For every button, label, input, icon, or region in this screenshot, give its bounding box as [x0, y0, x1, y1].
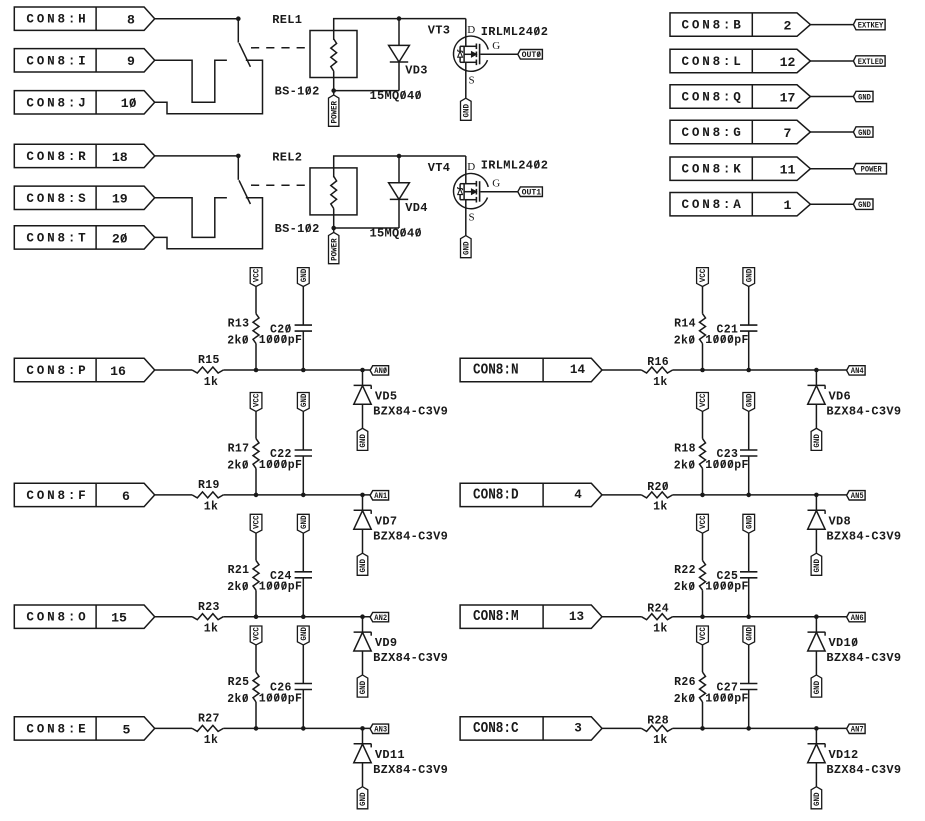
svg-text:VT3: VT3	[428, 24, 451, 38]
junction	[331, 226, 336, 231]
zener diode VD5	[362, 370, 364, 386]
wire	[673, 494, 847, 496]
power flag POWER	[329, 95, 339, 126]
zener diode VD6	[815, 370, 817, 386]
wire	[255, 645, 257, 672]
net flag OUT1	[518, 187, 543, 197]
junction	[397, 154, 402, 159]
svg-text:BS-102: BS-102	[275, 85, 320, 99]
svg-text:R23: R23	[198, 601, 220, 614]
analog input channel AN3 (left)	[14, 626, 448, 809]
wire	[333, 91, 335, 95]
wire	[810, 60, 853, 62]
relay channel 1 (REL1)	[14, 7, 548, 126]
svg-text:7: 7	[784, 126, 792, 141]
wire	[237, 19, 239, 43]
svg-text:CON8:A: CON8:A	[682, 198, 744, 212]
junction	[700, 726, 705, 731]
connector pin CON8:S	[14, 186, 154, 209]
junction	[254, 726, 259, 731]
svg-text:3: 3	[574, 722, 582, 736]
net flag EXTKEY	[853, 19, 885, 29]
wire	[302, 578, 304, 617]
svg-text:VT4: VT4	[428, 161, 451, 175]
ground flag GND	[811, 675, 822, 697]
resistor R18	[700, 439, 706, 469]
svg-text:EXTLED: EXTLED	[858, 58, 884, 67]
zener diode VD10	[815, 617, 817, 633]
ground flag GND	[357, 553, 368, 575]
svg-text:GND: GND	[359, 681, 368, 695]
svg-text:R14: R14	[674, 318, 696, 331]
capacitor C21	[740, 324, 757, 326]
wire	[334, 156, 466, 168]
net flag AN6	[847, 612, 866, 621]
wire	[810, 203, 853, 205]
wire	[255, 344, 257, 371]
power flag VCC	[697, 626, 709, 645]
capacitor C27	[740, 683, 757, 685]
wire	[748, 287, 750, 326]
svg-text:VD8: VD8	[829, 514, 852, 528]
connector pin CON8:K	[670, 157, 810, 180]
wire	[302, 287, 304, 326]
svg-text:1000pF: 1000pF	[705, 692, 749, 705]
svg-text:R16: R16	[647, 356, 669, 369]
svg-text:R22: R22	[674, 564, 696, 577]
svg-text:1k: 1k	[653, 501, 668, 514]
svg-text:2k0: 2k0	[674, 581, 696, 594]
wire	[748, 533, 750, 572]
svg-text:R13: R13	[228, 318, 250, 331]
wire	[255, 412, 257, 439]
resistor R15	[192, 367, 223, 373]
wire	[602, 369, 641, 371]
wire	[480, 191, 517, 193]
net flag AN3	[370, 724, 389, 733]
svg-text:GND: GND	[359, 434, 368, 448]
svg-text:BZX84-C3V9: BZX84-C3V9	[826, 651, 901, 665]
wire	[155, 369, 192, 371]
connector pin CON8:F	[14, 483, 154, 506]
svg-text:BZX84-C3V9: BZX84-C3V9	[826, 763, 901, 777]
connector pin CON8:M	[460, 605, 602, 628]
svg-text:D: D	[467, 161, 475, 173]
svg-text:VD4: VD4	[405, 201, 428, 215]
ground flag GND	[357, 428, 368, 450]
wire	[748, 645, 750, 684]
wire	[810, 24, 853, 26]
svg-text:16: 16	[110, 364, 126, 379]
svg-text:BZX84-C3V9: BZX84-C3V9	[373, 763, 448, 777]
power flag VCC	[250, 393, 262, 412]
svg-text:1k: 1k	[204, 623, 219, 636]
junction	[301, 614, 306, 619]
svg-text:R17: R17	[228, 442, 250, 455]
relay coil REL2	[310, 168, 357, 215]
svg-text:1000pF: 1000pF	[705, 581, 749, 594]
net flag OUT0	[518, 50, 543, 60]
resistor R14	[700, 314, 706, 344]
svg-text:R19: R19	[198, 479, 220, 492]
svg-text:2k0: 2k0	[674, 693, 696, 706]
net flag AN0	[370, 366, 389, 375]
svg-text:POWER: POWER	[861, 166, 882, 175]
svg-text:VD11: VD11	[375, 748, 405, 762]
capacitor C25	[740, 571, 757, 573]
wire	[333, 228, 335, 232]
net flag GND	[853, 127, 873, 137]
wire	[255, 468, 257, 495]
junction	[360, 614, 365, 619]
net flag AN2	[370, 612, 389, 621]
junction	[746, 368, 751, 373]
wire	[702, 590, 704, 617]
svg-text:GND: GND	[463, 241, 472, 255]
wire	[223, 616, 370, 618]
junction	[254, 614, 259, 619]
connector pin CON8:Q	[670, 85, 810, 108]
connector pin CON8:G	[670, 120, 810, 143]
svg-text:2k0: 2k0	[227, 581, 249, 594]
wire	[702, 645, 704, 672]
switch blade REL2	[239, 180, 250, 204]
power flag VCC	[250, 268, 262, 287]
wire	[155, 18, 239, 20]
wire	[302, 533, 304, 572]
svg-text:BZX84-C3V9: BZX84-C3V9	[826, 405, 901, 419]
power flag VCC	[697, 514, 709, 533]
svg-text:POWER: POWER	[330, 238, 339, 261]
svg-text:VCC: VCC	[699, 269, 708, 283]
wire	[334, 19, 466, 31]
svg-text:R20: R20	[647, 481, 669, 494]
wire	[810, 96, 853, 98]
svg-text:AN3: AN3	[374, 726, 387, 735]
ground flag GND	[461, 236, 472, 258]
wire	[255, 533, 257, 560]
wire	[223, 494, 370, 496]
svg-text:1k: 1k	[204, 501, 219, 514]
junction	[254, 493, 259, 498]
svg-text:GND: GND	[858, 129, 871, 138]
svg-text:VCC: VCC	[253, 269, 262, 283]
svg-text:R18: R18	[674, 442, 696, 455]
ground flag GND	[743, 626, 755, 645]
wire	[602, 494, 641, 496]
ground flag GND	[297, 626, 309, 645]
resistor R27	[192, 725, 223, 731]
net flag AN4	[847, 366, 866, 375]
junction	[301, 493, 306, 498]
power flag VCC	[250, 626, 262, 645]
svg-text:VD12: VD12	[829, 748, 859, 762]
wire	[748, 331, 750, 370]
svg-text:R24: R24	[647, 603, 669, 616]
svg-text:VD9: VD9	[375, 636, 398, 650]
junction	[397, 16, 402, 21]
wire	[748, 578, 750, 617]
svg-text:AN6: AN6	[851, 614, 864, 623]
capacitor C22	[295, 449, 312, 451]
svg-text:VD6: VD6	[829, 390, 852, 404]
connector pin CON8:D	[460, 483, 602, 506]
svg-text:1000pF: 1000pF	[259, 692, 303, 705]
wire	[334, 78, 399, 91]
svg-text:G: G	[492, 177, 500, 189]
svg-text:REL1: REL1	[272, 13, 302, 27]
svg-text:GND: GND	[813, 434, 822, 448]
wire	[748, 690, 750, 729]
junction	[746, 726, 751, 731]
switch blade REL1	[239, 43, 250, 67]
analog input channel AN6 (right)	[460, 514, 901, 697]
svg-text:BS-102: BS-102	[275, 222, 320, 236]
svg-text:CON8:H: CON8:H	[26, 13, 88, 27]
wire	[155, 727, 192, 729]
resistor R22	[700, 560, 706, 590]
resistor R17	[253, 439, 259, 469]
svg-text:BZX84-C3V9: BZX84-C3V9	[373, 405, 448, 419]
svg-text:GND: GND	[300, 393, 309, 407]
mechanical link (dashed)	[251, 184, 310, 186]
svg-text:GND: GND	[745, 515, 754, 529]
svg-text:4: 4	[574, 488, 582, 502]
wire	[748, 412, 750, 451]
wire	[702, 287, 704, 314]
svg-text:2k0: 2k0	[674, 335, 696, 348]
analog input channel AN1 (left)	[14, 393, 448, 576]
svg-text:GND: GND	[745, 269, 754, 283]
wire	[302, 331, 304, 370]
svg-text:GND: GND	[813, 792, 822, 806]
power flag VCC	[697, 393, 709, 412]
junction	[814, 726, 819, 731]
svg-text:1000pF: 1000pF	[705, 459, 749, 472]
ground flag GND	[297, 393, 309, 412]
net flag AN5	[847, 491, 866, 500]
svg-text:EXTKEY: EXTKEY	[858, 21, 884, 30]
connector pin CON8:C	[460, 717, 602, 740]
svg-text:CON8:E: CON8:E	[26, 722, 88, 736]
svg-text:AN7: AN7	[851, 726, 864, 735]
wire	[334, 215, 399, 228]
wire	[155, 616, 192, 618]
svg-text:5: 5	[123, 722, 131, 737]
ground flag GND	[461, 98, 472, 120]
junction	[360, 493, 365, 498]
wire	[302, 690, 304, 729]
svg-text:VD5: VD5	[375, 390, 398, 404]
ground flag GND	[743, 268, 755, 287]
wire	[702, 468, 704, 495]
connector pin CON8:B	[670, 13, 810, 36]
wire	[602, 616, 641, 618]
svg-text:VCC: VCC	[699, 515, 708, 529]
svg-text:CON8:P: CON8:P	[26, 364, 88, 378]
capacitor C24	[295, 571, 312, 573]
svg-text:CON8:N: CON8:N	[473, 361, 519, 378]
svg-text:GND: GND	[300, 269, 309, 283]
analog input channel AN5 (right)	[460, 393, 901, 576]
net flag GND	[853, 199, 873, 209]
junction	[360, 368, 365, 373]
connector pin CON8:H	[14, 7, 154, 30]
svg-text:R27: R27	[198, 713, 220, 726]
svg-text:R15: R15	[198, 354, 220, 367]
net flag AN7	[847, 724, 866, 733]
svg-text:2k0: 2k0	[674, 459, 696, 472]
junction	[700, 368, 705, 373]
mechanical link (dashed)	[251, 47, 310, 49]
junction	[360, 726, 365, 731]
svg-text:19: 19	[112, 192, 128, 207]
connector pin CON8:N	[460, 358, 602, 381]
resistor R20	[641, 492, 672, 498]
relay channel 2 (REL2)	[14, 144, 548, 264]
svg-text:BZX84-C3V9: BZX84-C3V9	[373, 651, 448, 665]
svg-text:CON8:G: CON8:G	[682, 126, 744, 140]
svg-text:VCC: VCC	[699, 393, 708, 407]
svg-text:9: 9	[127, 54, 135, 69]
relay coil REL1	[310, 31, 357, 78]
svg-text:D: D	[467, 24, 475, 36]
svg-text:1000pF: 1000pF	[259, 459, 303, 472]
power flag POWER	[329, 232, 339, 263]
svg-text:CON8:M: CON8:M	[473, 608, 519, 625]
svg-text:GND: GND	[463, 104, 472, 118]
svg-text:VD7: VD7	[375, 514, 398, 528]
connector pin CON8:J	[14, 91, 154, 114]
svg-text:15: 15	[111, 611, 127, 626]
svg-text:CON8:J: CON8:J	[26, 96, 88, 110]
svg-text:G: G	[492, 40, 500, 52]
svg-text:GND: GND	[745, 627, 754, 641]
wire	[602, 727, 641, 729]
svg-text:CON8:I: CON8:I	[26, 54, 88, 68]
zener diode VD7	[362, 495, 364, 511]
power flag VCC	[250, 514, 262, 533]
svg-text:AN2: AN2	[374, 614, 387, 623]
wire	[255, 287, 257, 314]
svg-text:CON8:O: CON8:O	[26, 611, 88, 625]
svg-text:14: 14	[570, 363, 586, 377]
svg-text:CON8:R: CON8:R	[26, 150, 88, 164]
ground flag GND	[357, 787, 368, 809]
svg-text:BZX84-C3V9: BZX84-C3V9	[373, 529, 448, 543]
svg-text:CON8:C: CON8:C	[473, 720, 519, 737]
connector pin CON8:L	[670, 49, 810, 72]
junction	[814, 493, 819, 498]
junction	[700, 493, 705, 498]
junction	[814, 614, 819, 619]
svg-text:GND: GND	[858, 93, 871, 102]
power flag VCC	[697, 268, 709, 287]
wire	[302, 645, 304, 684]
svg-text:VCC: VCC	[253, 515, 262, 529]
junction	[236, 154, 241, 159]
svg-text:1k: 1k	[204, 376, 219, 389]
wire	[155, 198, 263, 249]
svg-text:1k: 1k	[204, 734, 219, 747]
svg-text:GND: GND	[300, 627, 309, 641]
wire	[155, 198, 227, 238]
resistor R26	[700, 672, 706, 702]
zener diode VD12	[815, 728, 817, 744]
junction	[236, 16, 241, 21]
svg-text:17: 17	[780, 90, 796, 105]
net flag POWER	[853, 164, 886, 174]
svg-text:GND: GND	[745, 393, 754, 407]
svg-text:CON8:Q: CON8:Q	[682, 91, 744, 105]
ground flag GND	[743, 393, 755, 412]
svg-text:CON8:T: CON8:T	[26, 231, 88, 245]
wire	[810, 131, 853, 133]
diode VD4	[398, 156, 400, 183]
junction	[746, 493, 751, 498]
ground flag GND	[357, 675, 368, 697]
svg-text:AN1: AN1	[374, 492, 387, 501]
wire	[237, 156, 239, 180]
junction	[254, 368, 259, 373]
svg-text:18: 18	[112, 150, 128, 165]
wire	[155, 60, 263, 113]
svg-text:GND: GND	[359, 792, 368, 806]
analog input channel AN0 (left)	[14, 268, 448, 451]
svg-text:2: 2	[784, 19, 792, 34]
net flag EXTLED	[853, 56, 885, 66]
connector pin CON8:O	[14, 605, 154, 628]
svg-text:CON8:D: CON8:D	[473, 486, 519, 503]
svg-text:CON8:L: CON8:L	[682, 55, 744, 69]
svg-text:12: 12	[780, 55, 796, 70]
wire	[702, 412, 704, 439]
svg-text:1000pF: 1000pF	[259, 334, 303, 347]
svg-text:1: 1	[784, 198, 792, 213]
zener diode VD9	[362, 617, 364, 633]
wire	[155, 155, 239, 157]
analog input channel AN7 (right)	[460, 626, 901, 809]
svg-text:CON8:S: CON8:S	[26, 192, 88, 206]
svg-text:AN4: AN4	[851, 367, 864, 376]
svg-text:1000pF: 1000pF	[259, 581, 303, 594]
diode VD3	[398, 19, 400, 46]
wire	[673, 616, 847, 618]
svg-text:2k0: 2k0	[227, 335, 249, 348]
resistor R13	[253, 314, 259, 344]
svg-text:GND: GND	[359, 559, 368, 573]
capacitor C23	[740, 449, 757, 451]
wire	[155, 60, 227, 102]
net flag AN1	[370, 491, 389, 500]
junction	[301, 368, 306, 373]
connector pin CON8:E	[14, 717, 154, 740]
svg-text:R25: R25	[228, 676, 250, 689]
resistor R19	[192, 492, 223, 498]
capacitor C26	[295, 683, 312, 685]
wire	[702, 702, 704, 729]
net flag GND	[853, 91, 873, 101]
connector pin CON8:R	[14, 144, 154, 167]
svg-text:1k: 1k	[653, 376, 668, 389]
svg-text:CON8:K: CON8:K	[682, 163, 744, 177]
svg-text:GND: GND	[300, 515, 309, 529]
zener diode VD11	[362, 728, 364, 744]
svg-text:GND: GND	[813, 559, 822, 573]
svg-text:OUT1: OUT1	[522, 189, 542, 198]
zener diode VD8	[815, 495, 817, 511]
wire	[673, 369, 847, 371]
